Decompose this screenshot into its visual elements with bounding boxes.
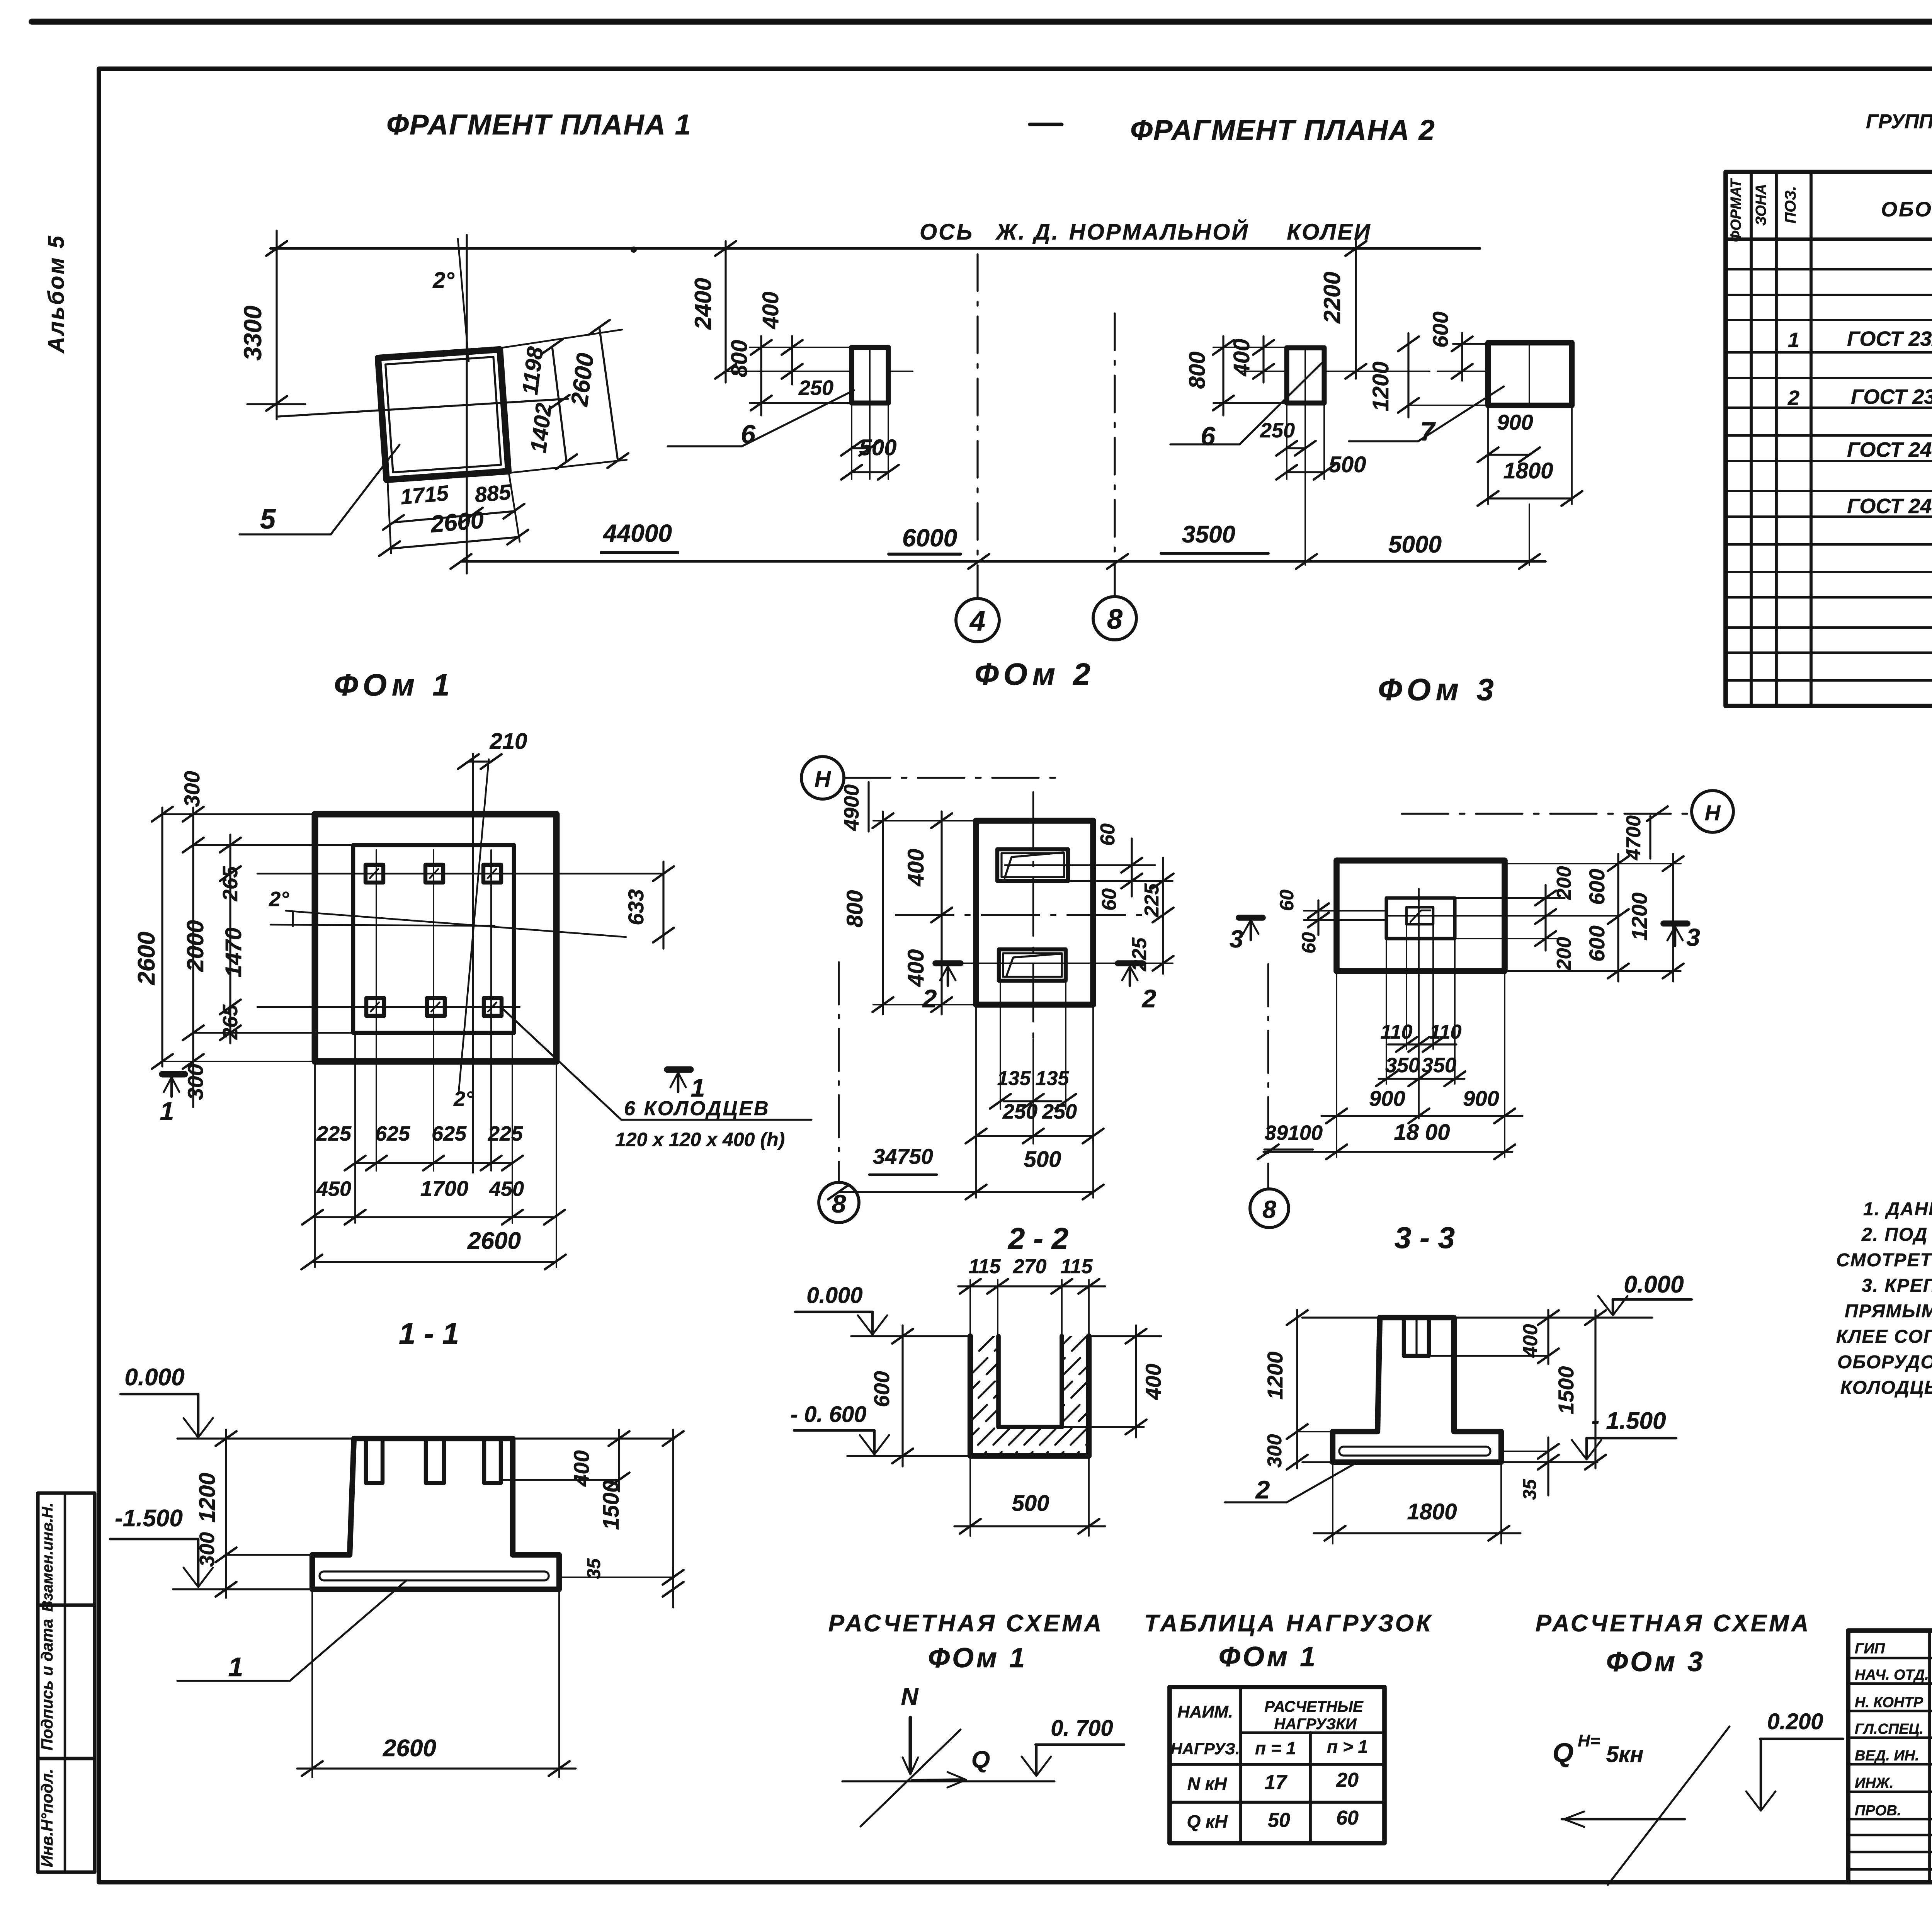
svg-text:900: 900	[1463, 1086, 1499, 1111]
diagonal dim 1198 1402	[552, 347, 566, 462]
FOm3 inner well	[1406, 907, 1433, 924]
svg-text:50: 50	[1268, 1809, 1290, 1832]
svg-text:135: 135	[1036, 1067, 1070, 1090]
svg-text:-1.500: -1.500	[115, 1505, 183, 1532]
svg-text:115: 115	[969, 1255, 1001, 1278]
FOm3 mesh line	[1339, 1447, 1490, 1456]
leader 6 wells	[500, 1007, 621, 1120]
axis circle N left	[801, 757, 844, 799]
FOm2 top slot	[997, 849, 1068, 881]
svg-text:8: 8	[832, 1189, 846, 1218]
svg-text:600: 600	[1585, 869, 1609, 905]
dims 350 350	[1386, 939, 1387, 1084]
svg-text:1: 1	[228, 1652, 243, 1682]
svg-text:60: 60	[1098, 888, 1121, 911]
bottom dim 225 625 625 225	[355, 1162, 512, 1164]
svg-text:6: 6	[1201, 422, 1216, 451]
svg-text:400: 400	[1229, 339, 1254, 377]
svg-text:- 1.500: - 1.500	[1591, 1408, 1666, 1434]
FOm3 level lines	[1302, 1316, 1380, 1318]
svg-text:450: 450	[489, 1177, 524, 1201]
svg-text:225: 225	[488, 1122, 523, 1145]
svg-text:2: 2	[1141, 984, 1156, 1013]
leader 1	[290, 1580, 406, 1681]
svg-text:1800: 1800	[1503, 458, 1553, 483]
left dims 300 2000 300	[192, 808, 194, 1107]
svg-text:265: 265	[219, 1004, 242, 1040]
svg-text:Подпись и дата: Подпись и дата	[38, 1619, 56, 1750]
svg-text:СМОТРЕТЬ ПОДГОТОВКУ ТОЛЩИНО: СМОТРЕТЬ ПОДГОТОВКУ ТОЛЩИНОЙ 100ММ ИЗ БЕ…	[1836, 1249, 1932, 1270]
svg-text:0.000: 0.000	[124, 1364, 184, 1391]
svg-text:2 - 2: 2 - 2	[1007, 1221, 1068, 1255]
svg-text:250: 250	[798, 376, 833, 400]
svg-text:2: 2	[1787, 386, 1799, 410]
svg-text:0.000: 0.000	[806, 1283, 862, 1308]
svg-text:1470: 1470	[221, 927, 246, 977]
svg-text:КОЛЕИ: КОЛЕИ	[1287, 219, 1372, 245]
svg-text:110: 110	[1430, 1021, 1462, 1043]
dim 2200	[1355, 240, 1357, 379]
svg-text:Альбом 5: Альбом 5	[44, 234, 69, 354]
dim 800	[760, 336, 762, 415]
svg-text:300: 300	[183, 1064, 207, 1100]
svg-text:Н: Н	[815, 767, 831, 792]
svg-text:ГОСТ 23279-85: ГОСТ 23279-85	[1847, 327, 1932, 350]
level lines sec11	[177, 1437, 355, 1439]
bottom dim 1715 885	[393, 511, 514, 522]
svg-text:Q кН: Q кН	[1187, 1811, 1228, 1832]
svg-text:20: 20	[1336, 1769, 1359, 1791]
svg-text:5: 5	[260, 504, 276, 535]
svg-text:250: 250	[1042, 1100, 1077, 1123]
svg-text:4: 4	[969, 606, 985, 637]
svg-text:1500: 1500	[599, 1480, 624, 1530]
svg-text:ТАБЛИЦА НАГРУЗОК: ТАБЛИЦА НАГРУЗОК	[1144, 1610, 1433, 1637]
FOm3 notch	[1404, 1318, 1429, 1356]
svg-text:3300: 3300	[239, 306, 267, 361]
svg-text:ФОм 1: ФОм 1	[1219, 1641, 1318, 1672]
svg-text:800: 800	[1185, 352, 1210, 389]
svg-text:2°: 2°	[269, 888, 289, 911]
svg-text:625: 625	[432, 1122, 467, 1145]
svg-text:250: 250	[1002, 1100, 1037, 1123]
svg-text:2600: 2600	[383, 1735, 436, 1762]
svg-text:ФОРМАТ: ФОРМАТ	[1728, 178, 1744, 242]
left margin stamp boxes	[38, 1493, 95, 1872]
svg-text:600: 600	[869, 1371, 894, 1407]
svg-text:200: 200	[1553, 866, 1575, 900]
well FOm2 of fragment 2 pos.6	[1287, 348, 1324, 403]
svg-text:ИНЖ.: ИНЖ.	[1855, 1775, 1894, 1791]
svg-text:500: 500	[1012, 1491, 1049, 1516]
svg-text:300: 300	[180, 771, 204, 807]
svg-text:2. ПОД ВСЕМИ МОНОЛИТНЫМИ ЖЕЛ: 2. ПОД ВСЕМИ МОНОЛИТНЫМИ ЖЕЛЕЗОБЕТОННЫМИ…	[1861, 1225, 1932, 1245]
svg-text:39100: 39100	[1265, 1121, 1323, 1145]
axis circle 8 below fom2	[819, 1182, 859, 1223]
svg-text:Инв.Н°подл.: Инв.Н°подл.	[38, 1769, 56, 1867]
svg-text:1: 1	[160, 1097, 174, 1125]
bottom ext lines	[314, 1061, 316, 1267]
svg-text:ОБОЗНАЧЕНИЕ: ОБОЗНАЧЕНИЕ	[1881, 198, 1932, 221]
axis line top right	[1402, 813, 1690, 815]
dim 1800 frag2	[1488, 497, 1572, 499]
FOm2 center lines	[1032, 792, 1034, 1039]
dim 2400	[724, 241, 726, 383]
svg-text:РАСЧЕТНЫЕ: РАСЧЕТНЫЕ	[1264, 1698, 1364, 1715]
FOm3 plan rect	[1337, 861, 1505, 971]
axis circle 8	[1093, 597, 1136, 640]
svg-text:44000: 44000	[602, 519, 672, 547]
svg-text:3500: 3500	[1182, 521, 1235, 548]
svg-text:Н. КОНТР: Н. КОНТР	[1855, 1694, 1923, 1711]
square tilted axis	[278, 399, 568, 417]
bottom dim 500 34750	[975, 1136, 977, 1198]
svg-text:2600: 2600	[429, 507, 485, 538]
dim 400 frag2	[1262, 336, 1264, 383]
svg-text:60: 60	[1298, 932, 1320, 954]
svg-text:ГОСТ 24379.1- 80: ГОСТ 24379.1- 80	[1847, 438, 1932, 461]
leader 7	[1418, 386, 1504, 441]
svg-text:500: 500	[859, 435, 897, 460]
svg-text:Н=: Н=	[1578, 1731, 1600, 1750]
svg-text:2000: 2000	[182, 920, 208, 972]
section mark 3 right	[1663, 920, 1687, 927]
svg-text:250: 250	[1260, 419, 1295, 442]
svg-text:ГОСТ 23279- 85: ГОСТ 23279- 85	[1851, 385, 1932, 408]
svg-text:900: 900	[1369, 1086, 1405, 1111]
left dims 265 1470 265	[229, 835, 231, 1043]
svg-text:1200: 1200	[195, 1473, 220, 1522]
svg-text:800: 800	[842, 890, 867, 928]
svg-text:265: 265	[219, 866, 242, 901]
bolt row axis lines	[257, 873, 663, 875]
well FOm2 of fragment 1 pos.6	[852, 347, 888, 403]
svg-text:КЛЕЕ СОГЛАСНО СН 471- 75: КЛЕЕ СОГЛАСНО СН 471- 75 ПУНКТ 2,4. ДОПУ…	[1836, 1327, 1932, 1347]
mesh line 1-1	[320, 1571, 549, 1580]
dim 500 sec22	[969, 1456, 971, 1536]
svg-text:ФОм 3: ФОм 3	[1606, 1646, 1705, 1677]
bottom dims 250 250	[975, 1005, 977, 1144]
foundation FOm1 plan square pos.5	[378, 349, 508, 480]
svg-text:210: 210	[490, 729, 527, 754]
svg-text:5кн: 5кн	[1606, 1742, 1644, 1767]
right dim 633	[662, 862, 664, 949]
svg-text:ФОм 1: ФОм 1	[928, 1643, 1027, 1673]
svg-text:200: 200	[1553, 937, 1575, 971]
dim 3300	[276, 231, 277, 419]
svg-text:2400: 2400	[690, 278, 716, 330]
svg-text:ПРОВ.: ПРОВ.	[1855, 1803, 1901, 1819]
svg-text:1. ДАННЫЙ ЛИСТ СМ. СОВМЕС: 1. ДАННЫЙ ЛИСТ СМ. СОВМЕСТНО С ЛИСТОМ 2.	[1863, 1198, 1932, 1219]
svg-text:34750: 34750	[873, 1144, 933, 1168]
svg-text:2°: 2°	[432, 268, 454, 293]
FOm2 bottom slot	[999, 949, 1066, 981]
svg-text:ГЛ.СПЕЦ.: ГЛ.СПЕЦ.	[1855, 1721, 1923, 1737]
svg-text:500: 500	[1024, 1147, 1061, 1172]
svg-text:800: 800	[727, 340, 752, 378]
svg-text:ПРЯМЫМИ БОЛТАМИ, СОЕДИНЕННЫ: ПРЯМЫМИ БОЛТАМИ, СОЕДИНЕННЫМИ С БЕТОНОМ …	[1845, 1301, 1932, 1321]
svg-text:8: 8	[1262, 1196, 1276, 1223]
svg-text:0.000: 0.000	[1624, 1271, 1684, 1298]
svg-text:270: 270	[1013, 1255, 1047, 1278]
right dims 400 1500 35 fom3sec	[1547, 1310, 1549, 1364]
svg-text:ГРУППОВАЯ СПЕЦИФИКАЦИЯ ДЛЯ: ГРУППОВАЯ СПЕЦИФИКАЦИЯ ДЛЯ МОНОЛИТНЫХ ЭЛ…	[1866, 111, 1932, 133]
svg-text:ФРАГМЕНТ ПЛАНА 1: ФРАГМЕНТ ПЛАНА 1	[386, 109, 692, 141]
svg-text:120 х 120 х 400 (h): 120 х 120 х 400 (h)	[615, 1129, 785, 1150]
dim 250 500 below well	[851, 403, 852, 479]
svg-text:Q: Q	[1553, 1738, 1573, 1768]
section mark 1 left	[162, 1071, 185, 1078]
dim 400	[791, 336, 793, 384]
svg-text:Ж. Д.: Ж. Д.	[995, 219, 1060, 245]
svg-text:1 - 1: 1 - 1	[399, 1316, 459, 1350]
FOm3 section outline	[1333, 1318, 1501, 1462]
right dims 60 60 225 225	[1005, 864, 1155, 866]
svg-text:6000: 6000	[902, 524, 957, 552]
leader 6	[742, 390, 854, 446]
svg-text:3 - 3: 3 - 3	[1395, 1221, 1455, 1255]
tilted horizontal 2deg line	[286, 911, 626, 937]
svg-text:НАЧ. ОТД.: НАЧ. ОТД.	[1855, 1667, 1929, 1683]
svg-text:60: 60	[1276, 889, 1298, 911]
svg-text:625: 625	[375, 1122, 410, 1145]
axis circle 4	[956, 599, 999, 642]
svg-text:7: 7	[1420, 417, 1436, 446]
svg-text:225: 225	[1141, 883, 1163, 918]
leader 2	[1287, 1461, 1360, 1502]
axis circle N right	[1692, 791, 1733, 832]
svg-text:Н: Н	[1705, 801, 1721, 825]
right dims 400 1500 35	[618, 1430, 620, 1492]
foundation FOm3 plan pos.7	[1488, 343, 1572, 405]
bottom dim 2600	[389, 537, 518, 549]
svg-text:18 00: 18 00	[1394, 1120, 1450, 1145]
svg-text:N: N	[901, 1684, 919, 1710]
FOm1 plan inner square	[353, 845, 514, 1033]
svg-text:0.200: 0.200	[1767, 1709, 1823, 1734]
scan top edge line	[32, 19, 1932, 25]
svg-text:1715: 1715	[400, 481, 450, 509]
svg-text:225: 225	[316, 1122, 352, 1145]
svg-text:5000: 5000	[1388, 531, 1442, 558]
svg-text:1200: 1200	[1368, 361, 1393, 411]
svg-text:2: 2	[1255, 1475, 1270, 1504]
bottom dim 2600 plan	[312, 1261, 555, 1263]
svg-text:450: 450	[316, 1177, 351, 1201]
svg-text:2200: 2200	[1319, 272, 1345, 323]
svg-text:60: 60	[1097, 823, 1119, 846]
svg-text:350: 350	[1422, 1054, 1456, 1077]
svg-text:135: 135	[997, 1067, 1031, 1090]
svg-text:НАГРУЗ.: НАГРУЗ.	[1170, 1740, 1240, 1758]
FOm3 center lines	[1304, 910, 1386, 912]
svg-text:1800: 1800	[1407, 1499, 1457, 1524]
svg-text:ОБОРУДОВАНИЯ К ФУНДАМЕНТ: ОБОРУДОВАНИЯ К ФУНДАМЕНТАМ БОЛТАМИ, ЗАДЕ…	[1837, 1352, 1932, 1372]
dim 1200 frag2	[1407, 333, 1409, 417]
svg-text:Q: Q	[971, 1747, 990, 1773]
right dims 600 600 1200	[1505, 863, 1681, 864]
left dim 2600	[161, 808, 163, 1066]
bottom dim 1800 fom3sec	[1332, 1462, 1333, 1544]
svg-text:- 0. 600: - 0. 600	[791, 1402, 867, 1427]
svg-text:60: 60	[1336, 1807, 1359, 1829]
svg-text:225: 225	[1128, 937, 1151, 972]
svg-text:ФОм 3: ФОм 3	[1378, 672, 1498, 707]
bottom dim 450 1700 450	[313, 1216, 554, 1218]
rail axis line	[270, 247, 1480, 250]
svg-text:Взамен.инв.Н.: Взамен.инв.Н.	[39, 1503, 56, 1612]
svg-text:ГИП: ГИП	[1855, 1641, 1885, 1657]
left dims 1200 300	[225, 1430, 227, 1598]
svg-text:РАСЧЕТНАЯ СХЕМА: РАСЧЕТНАЯ СХЕМА	[1536, 1610, 1811, 1637]
svg-text:400: 400	[903, 849, 929, 887]
dim 250 500 frag2	[1286, 403, 1287, 479]
svg-text:п = 1: п = 1	[1255, 1738, 1296, 1758]
load table grid	[1170, 1687, 1384, 1843]
svg-text:РАСЧЕТНАЯ СХЕМА: РАСЧЕТНАЯ СХЕМА	[828, 1610, 1104, 1637]
svg-text:п > 1: п > 1	[1327, 1736, 1368, 1757]
svg-text:35: 35	[584, 1558, 604, 1579]
svg-text:ФРАГМЕНТ ПЛАНА 2: ФРАГМЕНТ ПЛАНА 2	[1130, 114, 1435, 146]
svg-text:6 КОЛОДЦЕВ: 6 КОЛОДЦЕВ	[624, 1097, 770, 1120]
svg-text:ГОСТ 24379.1- 80: ГОСТ 24379.1- 80	[1847, 495, 1932, 518]
svg-text:1700: 1700	[420, 1176, 469, 1201]
svg-text:1500: 1500	[1554, 1366, 1578, 1415]
svg-text:3: 3	[1686, 923, 1700, 951]
svg-text:1: 1	[1788, 328, 1799, 352]
dims 110 110	[1406, 924, 1407, 1049]
svg-text:4700: 4700	[1622, 815, 1645, 861]
dim 3500 5000	[1296, 554, 1317, 569]
svg-text:1200: 1200	[1263, 1352, 1287, 1400]
dims 900 900	[1336, 971, 1337, 1157]
FOm2 plan rect	[976, 821, 1093, 1005]
svg-text:6: 6	[741, 420, 756, 449]
left dims 1200 300 fom3sec	[1296, 1310, 1298, 1468]
spec table grid	[1726, 172, 1932, 706]
dim 800 frag2	[1222, 336, 1224, 415]
section mark 2 left	[935, 960, 961, 966]
ext lines to diagonal dims	[499, 330, 622, 348]
notch bottom ext line	[501, 1479, 619, 1481]
diagonal dim 2600	[599, 327, 618, 461]
dim 1800 39100	[1264, 1151, 1512, 1153]
FOm3 slot	[1386, 898, 1455, 939]
svg-text:КОЛОДЦЫ, ПОКАЗАННЫЕ НА: КОЛОДЦЫ, ПОКАЗАННЫЕ НА ДАННОМ ЛИСТЕ.	[1840, 1378, 1932, 1398]
leader 5	[240, 445, 400, 534]
svg-text:2°: 2°	[453, 1087, 474, 1111]
svg-text:2600: 2600	[467, 1228, 521, 1254]
svg-text:400: 400	[1519, 1324, 1542, 1358]
svg-text:885: 885	[474, 480, 512, 507]
axis line to circle 8	[1267, 964, 1269, 1188]
notches 1-1	[366, 1439, 383, 1483]
svg-text:2600: 2600	[133, 932, 160, 985]
square vertical axis	[466, 235, 468, 573]
svg-text:2: 2	[922, 984, 937, 1013]
bolt wells 6x	[366, 865, 383, 883]
svg-text:3. КРЕПЛЕНИЕ ОБОРУДОВАНИЯ: 3. КРЕПЛЕНИЕ ОБОРУДОВАНИЯ К ФУНДАМЕНТАМ …	[1862, 1276, 1932, 1296]
svg-text:ЗОНА: ЗОНА	[1753, 184, 1769, 226]
svg-text:110: 110	[1381, 1021, 1413, 1043]
svg-text:1200: 1200	[1627, 893, 1651, 941]
svg-text:8: 8	[1107, 604, 1122, 635]
axis circle 8 below fom3	[1250, 1189, 1289, 1228]
tilted vertical 2deg line	[459, 759, 489, 1092]
left dim 800 fom2	[882, 811, 884, 1014]
svg-text:350: 350	[1385, 1054, 1420, 1077]
svg-text:300: 300	[1264, 1434, 1286, 1468]
dims 200 200	[1455, 897, 1565, 899]
svg-text:633: 633	[624, 889, 648, 925]
svg-text:600: 600	[1585, 925, 1609, 961]
bottom dims 135 135	[1000, 981, 1001, 1109]
section mark 1 right	[667, 1066, 690, 1073]
svg-text:НАИМ.: НАИМ.	[1177, 1702, 1233, 1721]
FOm1 plan outer square	[315, 814, 556, 1061]
dim 600 sec22	[901, 1325, 903, 1466]
dim 600 frag2	[1461, 333, 1463, 381]
svg-text:500: 500	[1329, 452, 1366, 477]
svg-text:35: 35	[1520, 1479, 1540, 1500]
svg-text:ПОЗ.: ПОЗ.	[1782, 186, 1799, 224]
dim 210	[468, 760, 491, 762]
left dims 400 400 fom2	[940, 811, 942, 1014]
vertical axis line	[472, 753, 474, 1173]
svg-text:900: 900	[1497, 410, 1533, 434]
signature table grid	[1848, 1631, 1932, 1882]
svg-text:ФОм 2: ФОм 2	[975, 657, 1095, 691]
bolt column ext lines	[376, 850, 377, 1171]
svg-text:НАГРУЗКИ: НАГРУЗКИ	[1274, 1716, 1357, 1733]
foundation 1-1 outline	[312, 1439, 559, 1589]
svg-text:400: 400	[1141, 1364, 1165, 1400]
svg-text:4900: 4900	[840, 784, 863, 831]
svg-text:ФОм 1: ФОм 1	[334, 668, 454, 702]
svg-text:600: 600	[1428, 311, 1452, 347]
svg-text:ОСЬ: ОСЬ	[920, 219, 974, 245]
leader 6 frag2	[1240, 363, 1321, 444]
svg-text:115: 115	[1061, 1255, 1093, 1278]
section mark 3 left	[1239, 915, 1263, 921]
svg-text:17: 17	[1264, 1771, 1287, 1794]
dim 44000 6000	[461, 560, 1546, 563]
ext lines left dims	[162, 813, 315, 815]
svg-text:0. 700: 0. 700	[1051, 1716, 1113, 1741]
dim 900 frag2	[1488, 454, 1529, 456]
svg-text:N кН: N кН	[1187, 1774, 1227, 1794]
svg-text:3: 3	[1230, 925, 1243, 953]
svg-text:400: 400	[758, 292, 783, 330]
svg-text:ВЕД. ИН.: ВЕД. ИН.	[1855, 1748, 1919, 1764]
bottom dim 2600 sec11	[311, 1589, 313, 1777]
U section outline	[970, 1336, 1089, 1456]
dim 400 sec22	[1089, 1335, 1161, 1337]
section mark 2 right	[1118, 960, 1143, 966]
svg-text:НОРМАЛЬНОЙ: НОРМАЛЬНОЙ	[1069, 219, 1249, 245]
svg-text:400: 400	[569, 1450, 594, 1486]
svg-text:400: 400	[903, 949, 929, 987]
